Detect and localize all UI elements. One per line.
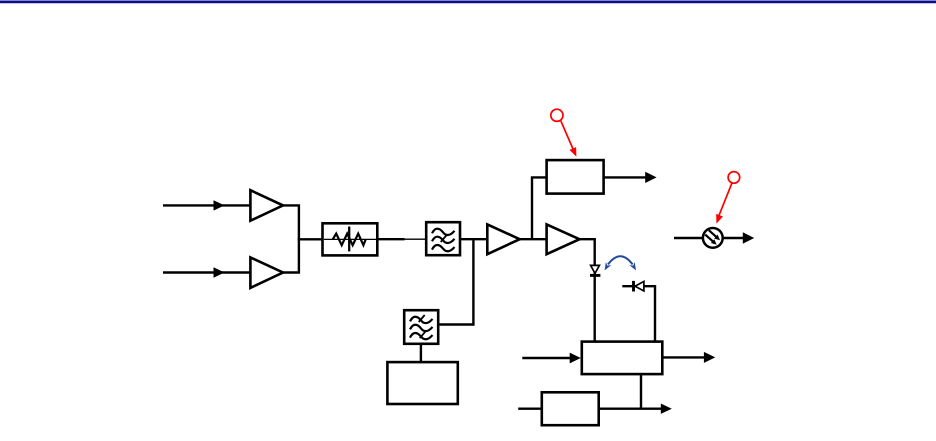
wire branch down to filter F2: [438, 239, 473, 324]
filter F2 box: [404, 310, 438, 344]
attenuator through line: [324, 238, 376, 240]
variable attenuator arrow 2: [705, 235, 713, 242]
wire input 1: [163, 204, 250, 206]
arrowhead input 1: [214, 200, 225, 210]
amplifier A4: [547, 224, 580, 254]
filter F1 box: [426, 222, 460, 255]
diode D1 cathode bar: [590, 274, 600, 277]
diode D2: [635, 281, 644, 291]
wire variable attenuator output: [723, 237, 744, 239]
filter F2 bottom wave slash: [420, 331, 426, 338]
wire detector output: [604, 176, 646, 178]
wire attenuator to filter F1: [377, 238, 404, 240]
arrowhead input 2: [214, 267, 225, 277]
mixer box: [582, 342, 663, 375]
wire input 2: [163, 271, 250, 273]
wire filter F2 to oscillator box: [420, 344, 422, 362]
header rule: [0, 1, 936, 4]
filter F1 middle wave slash: [441, 235, 447, 242]
diode D2 cathode bar: [632, 281, 635, 292]
wire combiner from A1: [282, 205, 299, 272]
arrowhead mixer input: [570, 353, 581, 364]
wire mixer input: [522, 357, 570, 359]
arrowhead detector output: [645, 172, 656, 183]
attenuator box R1: [323, 223, 378, 255]
arrowhead variable attenuator output: [743, 232, 754, 243]
wire reference input: [518, 408, 542, 410]
resistor zigzag: [333, 234, 366, 246]
amplifier A1: [250, 190, 283, 221]
red adjust circle 1: [551, 109, 563, 121]
wire A3 to A4: [519, 238, 547, 240]
resistor wiper line: [348, 227, 350, 252]
amplifier A3: [487, 224, 519, 254]
reference box: [542, 392, 599, 425]
wire thin segment to filter F1: [405, 238, 427, 240]
wire mixer to output line: [640, 374, 642, 409]
variable attenuator arrow 1: [709, 230, 717, 237]
detector box: [547, 160, 604, 194]
filter F2 wave bottom: [410, 333, 433, 339]
wire combiner to attenuator: [298, 238, 323, 240]
red adjust arrow 1: [561, 121, 574, 150]
filter F2 wave top: [410, 317, 433, 323]
wire filter F1 to amplifier A3: [460, 238, 487, 240]
red adjust circle 2: [728, 172, 740, 184]
wire reference output: [599, 408, 662, 410]
filter F1 wave top: [432, 229, 455, 235]
arrowhead mixer output: [704, 352, 715, 363]
blue tuning arc: [608, 256, 633, 264]
wire variable attenuator input: [674, 237, 703, 239]
red adjust arrow 2: [719, 183, 732, 217]
variable attenuator circle: [703, 228, 723, 248]
diode D1: [591, 265, 600, 273]
wire mixer output: [662, 356, 704, 358]
oscillator box: [387, 362, 457, 404]
arrowhead reference output: [661, 404, 672, 414]
amplifier A2: [250, 257, 283, 288]
wire diode D2 stub: [622, 286, 655, 341]
filter F2 wave middle: [410, 325, 433, 331]
wire A4 output to diode branch: [579, 239, 595, 341]
filter F2 top wave slash: [419, 315, 425, 322]
wire tap up to detector box: [532, 177, 547, 239]
filter F1 wave bottom: [432, 245, 455, 251]
filter F1 wave middle: [432, 237, 455, 243]
